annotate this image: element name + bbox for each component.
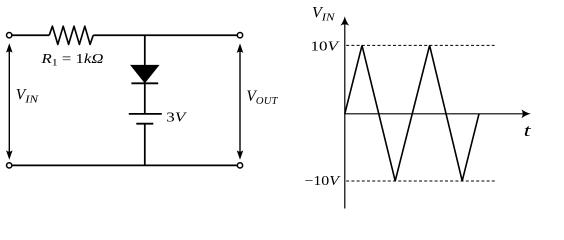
wire middle branch upper xyxy=(144,35,146,66)
diode cathode bar xyxy=(131,82,158,84)
wire battery to bottom xyxy=(144,124,146,166)
label Vin graph xyxy=(312,4,335,23)
diode D1 xyxy=(131,65,159,82)
terminal bottom-left xyxy=(7,163,12,168)
label 3V xyxy=(166,109,187,124)
wire bottom xyxy=(12,164,237,166)
Vin arrowhead down xyxy=(6,150,13,160)
label -10V xyxy=(304,173,341,188)
Vout arrow shaft xyxy=(239,49,241,155)
label Vin circuit xyxy=(16,86,39,105)
svg-text:t: t xyxy=(524,121,533,140)
triangle wave Vin xyxy=(345,45,479,181)
label 10V xyxy=(311,38,341,53)
svg-text:VIN: VIN xyxy=(16,86,39,105)
svg-text:10V: 10V xyxy=(311,38,341,53)
graph t-axis xyxy=(345,113,524,115)
battery positive plate xyxy=(129,113,162,115)
battery negative plate xyxy=(136,123,153,125)
svg-text:R1 = 1kΩ: R1 = 1kΩ xyxy=(40,51,104,69)
graph y-axis xyxy=(344,24,346,209)
svg-text:VOUT: VOUT xyxy=(246,88,278,107)
label R1 = 1kOhm xyxy=(40,51,104,69)
label t xyxy=(524,121,533,140)
svg-text:−10V: −10V xyxy=(304,173,341,188)
terminal top-left xyxy=(7,33,12,38)
Vin arrow shaft xyxy=(8,49,10,155)
dashed line -10V xyxy=(346,180,495,182)
svg-text:VIN: VIN xyxy=(312,4,335,23)
graph t-axis arrowhead xyxy=(522,109,531,118)
wire top-left segment xyxy=(12,34,49,36)
Vout arrowhead up xyxy=(237,43,244,53)
resistor R1 xyxy=(49,26,93,44)
terminal bottom-right xyxy=(237,163,242,168)
dashed line +10V xyxy=(346,44,494,46)
wire top-right segment xyxy=(93,34,237,36)
label Vout xyxy=(246,88,278,107)
terminal top-right xyxy=(237,33,242,38)
graph y-axis arrowhead xyxy=(340,16,349,25)
Vin arrowhead up xyxy=(6,43,13,53)
Vout arrowhead down xyxy=(237,150,244,160)
svg-text:3V: 3V xyxy=(166,109,187,124)
wire diode to battery xyxy=(144,83,146,114)
